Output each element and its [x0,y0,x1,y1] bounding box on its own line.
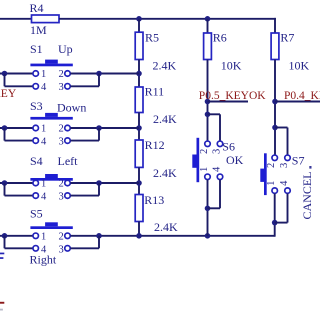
junction bottom bus / R13 [136,233,142,239]
junction S3 right bracket [96,125,102,131]
wire S5 pin3 to bracket [70,247,99,249]
svg-text:Right: Right [30,252,57,266]
switch S5 pin 3 [65,246,71,252]
wire S3 left vertical [4,128,6,141]
resistor R12 body [135,140,143,167]
switch S6 pin 4 [217,174,223,180]
resistor R6 body [204,33,212,60]
wire S3 to pin 4 [5,140,33,142]
resistor R5 body [135,32,143,59]
wire R5 bottom to R11 top [138,60,140,88]
wire S6 pin1 down to bottom bus [207,180,209,236]
svg-text:R6: R6 [213,30,227,44]
switch S1 pin 3 [65,84,71,90]
wire S5 left vertical [4,236,6,249]
wire branch to S6 pin 3 horizontal [208,113,221,115]
svg-text:10K: 10K [221,58,242,72]
wire S4 bracket vertical [98,183,100,196]
switch S7 pin 3 [285,155,291,161]
wire R6 column top stub [207,19,209,33]
svg-text:Up: Up [58,42,73,56]
wire S3 pin3 to bracket [70,140,99,142]
svg-text:S1: S1 [30,42,43,56]
svg-text:4: 4 [212,166,223,172]
switch S7 pin 1 [272,188,278,194]
wire R12 bottom to R13 top [138,167,140,194]
switch S1 pin 1 [33,71,39,77]
svg-text:1: 1 [266,181,277,186]
svg-text:P0.5_KEYOK: P0.5_KEYOK [199,90,266,102]
junction node S4 row / R12-R13 [136,180,142,186]
wire top bus from R4 to R7 corner [59,18,276,20]
wire S1 left vertical [4,74,6,87]
junction S3 left [2,125,8,131]
switch S4 bar [30,178,72,181]
svg-text:3: 3 [59,244,64,255]
switch S4 pin 2 [65,180,71,186]
S7 name punctuation mark [309,166,311,169]
switch S6 pin 1 [205,174,211,180]
junction node S1 row / R5-R11 [136,71,142,77]
wire top bus left stub to R4 [0,18,32,20]
wire branch to S6 pin 3 vertical [219,114,221,141]
wire R13 bottom to bottom bus [138,222,140,237]
switch S1 bar [30,64,72,67]
wire S1 to pin 4 [5,85,33,87]
wire S1 bracket vertical [98,74,100,87]
wire branch to S7 pin 3 vertical [287,128,289,156]
wire S1 pin2 to R5 column [70,73,139,75]
switch S3 pin 2 [65,125,71,131]
switch S7 actuator [260,169,264,182]
wire R11 bottom to R12 top [138,113,140,141]
svg-text:4: 4 [41,192,47,203]
switch S4 pin 1 [33,180,39,186]
wire S3 left stub [0,127,33,129]
svg-text:2.4K: 2.4K [153,166,177,180]
wire S3 pin2 to R column [70,127,139,129]
junction S6 pins 1/4 [205,206,211,212]
switch S6 actuator [192,155,196,168]
wire S5 to pin 4 [5,247,33,249]
wire S7 pin4 down [287,194,289,223]
svg-text:2: 2 [59,69,64,80]
svg-text:4: 4 [41,82,47,93]
svg-text:2: 2 [266,163,277,168]
svg-text:1: 1 [41,124,46,135]
switch S4 pin 4 [33,193,39,199]
svg-text:1: 1 [41,69,46,80]
wire R6 bottom down to S6 pin 2 [207,60,209,142]
switch S1 pin 4 [33,84,39,90]
switch S3 pin 1 [33,125,39,131]
svg-text:3: 3 [212,149,223,154]
resistor R11 body [135,87,143,113]
svg-text:2: 2 [199,149,210,154]
wire R5 column top stub [138,19,140,33]
svg-text:P0.4_KEY: P0.4_KEY [284,90,320,102]
wire S4 pin3 to bracket [70,195,99,197]
svg-text:1: 1 [41,179,46,190]
wire S3 bracket vertical [98,128,100,141]
switch S3 actuator [45,113,58,117]
junction S5 right bracket [96,233,102,239]
truncated label fragment left edge [0,253,4,255]
switch S1 pin 2 [65,71,71,77]
svg-text:R4: R4 [30,1,44,15]
svg-text:2: 2 [59,232,64,243]
wire S6 pin4 to junction [208,207,221,209]
svg-text:KEY: KEY [0,88,17,100]
switch S6 bar [197,138,200,182]
wire net stub P0.4 to right edge [275,101,320,103]
wire S6 pin4 down [219,180,221,209]
truncated red fragment bottom left [0,302,4,304]
svg-text:R5: R5 [145,31,159,45]
svg-text:3: 3 [59,82,64,93]
svg-text:S3: S3 [30,99,43,113]
svg-text:1: 1 [199,167,210,172]
wire S5 bracket vertical [98,236,100,249]
svg-text:R12: R12 [145,138,165,152]
svg-text:1M: 1M [30,23,47,37]
wire S1 left stub [0,73,33,75]
svg-text:3: 3 [59,137,64,148]
junction S4 left [2,180,8,186]
junction node S3 row / R11-R12 [136,125,142,131]
svg-text:S6: S6 [222,139,235,153]
switch S1 actuator [45,60,58,64]
wire branch to S7 pin 3 horizontal [275,127,288,129]
svg-text:1: 1 [41,232,46,243]
switch S3 bar [30,117,72,120]
svg-text:2.4K: 2.4K [154,220,178,234]
truncated label fragment left edge lower [0,257,3,259]
svg-text:R11: R11 [145,85,165,99]
junction S5 left [2,233,8,239]
switch S7 pin 4 [285,188,291,194]
wire S4 left vertical [4,183,6,196]
wire R7 bottom down to S7 pin 2 [274,60,276,156]
junction S7 pins 2/3 branch [272,125,278,131]
switch S7 pin 2 [272,155,278,161]
junction S1 right bracket [96,71,102,77]
switch S6 pin 3 [217,141,223,147]
junction top bus / R6 column [205,16,211,22]
resistor R4 body [32,15,60,23]
switch S5 pin 1 [33,233,39,239]
svg-text:Down: Down [57,100,86,114]
wire S5 left stub [0,235,33,237]
switch S7 bar [264,153,267,195]
wire S7 pin4 to junction [275,222,288,224]
svg-text:2.4K: 2.4K [153,112,177,126]
junction node P0.4 net on R7 column [272,99,278,105]
junction S6 pins 2/3 branch [205,112,211,118]
junction node P0.5_KEYOK on R6 column [205,99,211,105]
svg-text:CANCEL: CANCEL [300,172,314,220]
wire S7 pin1 down to bottom bus corner [274,194,276,237]
svg-text:S7: S7 [292,154,305,168]
switch S3 pin 3 [65,138,71,144]
switch S6 pin 2 [205,141,211,147]
resistor R13 body [135,195,143,222]
junction S4 right bracket [96,180,102,186]
svg-text:4: 4 [41,137,47,148]
svg-text:10K: 10K [289,58,310,72]
wire R7 column from top bus corner [274,18,276,33]
junction S1 left [2,71,8,77]
switch S5 bar [30,226,72,229]
junction top bus / R5 column [136,16,142,22]
svg-text:Left: Left [58,154,79,168]
switch S4 pin 3 [65,193,71,199]
wire S1 pin3 to bracket [70,85,99,87]
junction bottom bus / S6 [205,233,211,239]
switch S5 pin 4 [33,246,39,252]
truncated gray fragment bottom left [0,309,3,311]
svg-text:S5: S5 [30,207,43,221]
svg-text:OK: OK [226,153,244,167]
switch S5 pin 2 [65,233,71,239]
resistor R7 body [271,33,279,60]
svg-text:3: 3 [279,163,290,168]
wire net stub P0.5_KEYOK [208,101,249,103]
wire S4 left stub [0,182,33,184]
svg-text:4: 4 [279,180,290,186]
svg-text:3: 3 [59,192,64,203]
wire S4 pin2 to R column [70,182,139,184]
wire S4 to pin 4 [5,195,33,197]
svg-text:2: 2 [59,179,64,190]
svg-text:S4: S4 [30,154,43,168]
svg-text:2: 2 [59,124,64,135]
svg-text:R7: R7 [280,30,294,44]
wire bottom bus S5 pin2 to S7 corner [70,235,274,237]
svg-text:R13: R13 [144,193,164,207]
svg-text:2.4K: 2.4K [153,58,177,72]
switch S5 actuator [45,222,58,226]
junction S7 pins 1/4 [272,220,278,226]
switch S4 actuator [45,174,58,178]
switch S3 pin 4 [33,138,39,144]
